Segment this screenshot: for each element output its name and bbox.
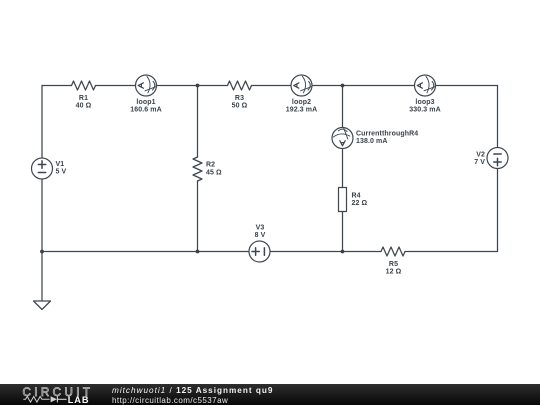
ammeter loop3 [415,75,436,96]
ammeter loop1 [136,75,157,96]
ammeter loop2 [291,75,312,96]
wire right vertical upper [497,86,499,148]
svg-text:http://circuitlab.com/c5537aw: http://circuitlab.com/c5537aw [112,396,228,405]
resistor R5 [381,247,405,256]
svg-text:R3: R3 [235,95,244,102]
svg-text:8 V: 8 V [255,232,266,239]
wire R4 to bottom [342,212,344,252]
resistor R4 (box) [339,188,347,212]
ammeter CurrentthroughR4 [332,128,353,149]
footer caption [112,386,273,405]
wire R2 vertical lower [197,181,199,252]
wire loop2 to loop3 [312,85,415,87]
svg-text:45 Ω: 45 Ω [206,170,222,177]
resistor R1 [72,81,96,90]
node junction bottom R4 [341,250,345,254]
svg-text:loop3: loop3 [415,99,434,106]
voltage source V1 [32,158,53,179]
svg-text:330.3 mA: 330.3 mA [409,107,441,114]
wire V3 to R5 [270,251,381,253]
wire to ground [41,252,43,302]
svg-text:138.0 mA: 138.0 mA [356,138,388,145]
svg-text:R5: R5 [389,261,398,268]
wire R2 vertical upper [197,86,199,158]
wire top-left horizontal [42,85,72,87]
voltage source V2 [487,148,508,169]
footer bar [0,384,540,405]
svg-text:7 V: 7 V [474,159,485,166]
wire R3 to loop2 [252,85,292,87]
resistor R3 [228,81,252,90]
wire mid branch upper [342,86,344,128]
svg-text:40 Ω: 40 Ω [76,103,92,110]
svg-text:V2: V2 [476,152,485,159]
CircuitLab logo [23,386,94,405]
node junction bottom R2 [196,250,200,254]
svg-text:V1: V1 [56,161,65,168]
resistor R2 [193,157,202,181]
svg-text:5 V: 5 V [56,169,67,176]
svg-text:12 Ω: 12 Ω [386,269,402,276]
wire R1 to loop1 [96,85,136,87]
wire loop3 to top-right corner [436,85,498,87]
svg-text:R4: R4 [352,193,361,200]
wire ammeter to R4 [342,149,344,188]
wire R5 to bottom-right corner [405,251,498,253]
wire right vertical lower [497,169,499,252]
node junction top R4 branch [341,84,345,88]
svg-text:CurrentthroughR4: CurrentthroughR4 [356,131,418,138]
svg-text:loop2: loop2 [292,99,311,106]
node junction top R2 [196,84,200,88]
svg-text:22 Ω: 22 Ω [352,200,368,207]
wire loop1 to R3 [157,85,228,87]
voltage source V3 [249,241,270,262]
svg-text:R1: R1 [79,95,88,102]
ground [34,301,51,310]
svg-text:mitchwuoti1 / 125 Assignment q: mitchwuoti1 / 125 Assignment qu9 [112,386,273,395]
svg-text:LAB: LAB [68,395,90,405]
wire bottom-left horizontal [42,251,249,253]
svg-text:50 Ω: 50 Ω [232,103,248,110]
wire left vertical upper [41,86,43,159]
svg-text:R2: R2 [206,162,215,169]
svg-text:160.6 mA: 160.6 mA [130,107,162,114]
svg-text:V3: V3 [256,225,265,232]
node junction bottom-left ground [40,250,44,254]
wire V1 to bottom-left [41,179,43,252]
svg-text:loop1: loop1 [136,99,155,106]
svg-text:192.3 mA: 192.3 mA [286,107,318,114]
